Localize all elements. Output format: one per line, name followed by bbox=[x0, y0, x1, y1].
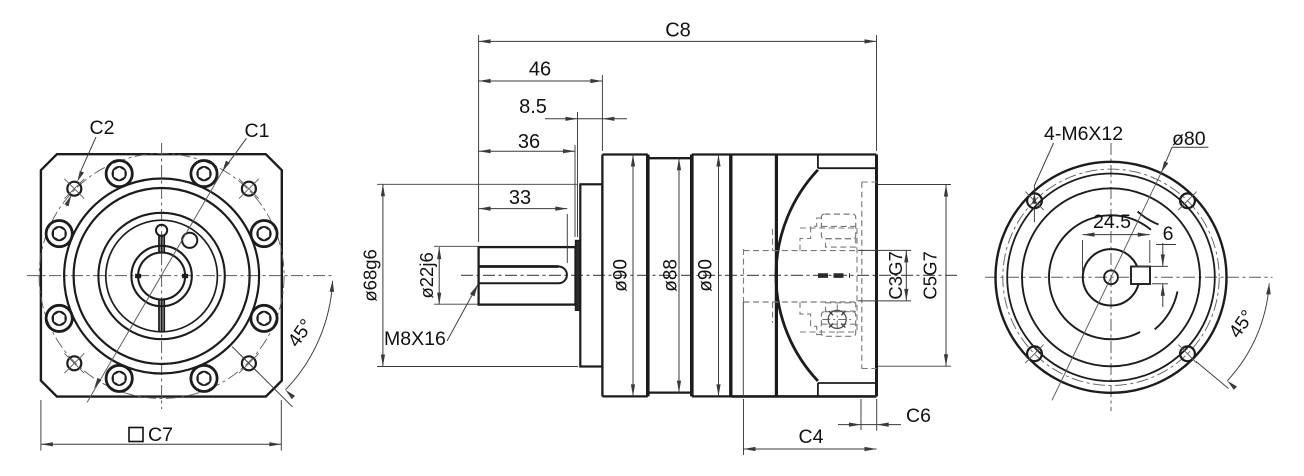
adapter joint line lower bbox=[742, 302, 744, 396]
hidden clamp screw bottom bbox=[821, 312, 855, 337]
left view hex socket screw 1 bbox=[251, 221, 277, 247]
svg-text:C5G7: C5G7 bbox=[920, 251, 941, 299]
hidden coupling bore lines (C3G7) bbox=[744, 250, 858, 252]
shaft shoulder step bbox=[576, 241, 581, 311]
svg-text:C4: C4 bbox=[799, 426, 824, 448]
svg-text:M8X16: M8X16 bbox=[384, 328, 446, 350]
adapter boundary thick bbox=[775, 155, 778, 397]
left view hex socket screw 2 bbox=[191, 161, 217, 187]
label M8X16 leader bbox=[447, 285, 478, 341]
section boundary thick 3 bbox=[729, 155, 732, 397]
dim 24.5 extension lines bbox=[1082, 240, 1084, 272]
right view bolt circle (dash-dot) bbox=[1003, 169, 1219, 385]
left view hex socket screw 3 bbox=[106, 161, 132, 187]
dim 8.5 bbox=[545, 118, 578, 120]
housing front face bbox=[601, 155, 603, 397]
dim C6 extension lines bbox=[860, 399, 862, 430]
dim 46 bbox=[479, 80, 603, 82]
svg-text:ø90: ø90 bbox=[696, 259, 717, 292]
svg-text:36: 36 bbox=[518, 131, 540, 153]
section boundary thick 2 bbox=[690, 155, 694, 397]
left view mounting hole 4 (45 deg) bbox=[242, 356, 256, 370]
svg-text:8.5: 8.5 bbox=[519, 96, 547, 118]
dim 8.5 extension line bbox=[577, 112, 579, 237]
dim C8 extension lines bbox=[478, 35, 480, 242]
left view bolt circle (dash-dot) bbox=[39, 154, 284, 399]
right view hub keyway bbox=[1131, 267, 1150, 285]
dim 36 bbox=[479, 150, 575, 152]
svg-text:C3G7: C3G7 bbox=[885, 251, 906, 299]
label 4-M6X12 leader bbox=[1034, 143, 1053, 186]
dim dia22j6 bbox=[438, 247, 440, 305]
svg-text:4-M6X12: 4-M6X12 bbox=[1044, 123, 1123, 145]
left view diagonal end arrow bbox=[94, 378, 102, 389]
left view hex socket screw 4 bbox=[46, 221, 72, 247]
right view thread arc upper bbox=[1138, 212, 1159, 225]
right view vertical centerline bbox=[1110, 143, 1112, 411]
svg-text:C7: C7 bbox=[148, 424, 173, 446]
left view hex socket screw 5 bbox=[46, 305, 72, 331]
svg-text:ø88: ø88 bbox=[661, 259, 682, 292]
left view clamp slit upper bbox=[158, 236, 160, 253]
svg-text:ø68g6: ø68g6 bbox=[360, 249, 381, 301]
svg-text:ø22j6: ø22j6 bbox=[416, 252, 437, 298]
middle view horizontal centerline bbox=[461, 274, 957, 276]
right view center hole bbox=[1104, 270, 1118, 284]
dim 6 bbox=[1162, 243, 1164, 266]
left view clamp slit lower bbox=[158, 299, 160, 331]
right view 45deg radial line bbox=[1196, 362, 1229, 389]
adapter top line bbox=[732, 153, 877, 155]
dim 33 bbox=[479, 208, 568, 210]
hidden clamp screw top bbox=[821, 214, 855, 239]
left view mounting hole 2 (45 deg) bbox=[67, 182, 81, 196]
left view mounting hole 3 (45 deg) bbox=[67, 356, 81, 370]
dim C8 bbox=[479, 40, 877, 42]
svg-text:6: 6 bbox=[1163, 223, 1174, 245]
right view outer flange circle bbox=[996, 162, 1227, 393]
left view vertical centerline bbox=[161, 143, 163, 409]
dim C5G7 extension lines bbox=[878, 184, 951, 186]
right view input hub circle bbox=[1083, 249, 1139, 305]
left view clamp screw hole top bbox=[156, 225, 167, 236]
dim dia22j6 extension lines bbox=[434, 245, 479, 247]
housing top line section1 bbox=[602, 153, 647, 155]
dimension C7 extension lines bbox=[40, 400, 42, 451]
left view bore keyseat mark left bbox=[135, 274, 141, 278]
left view diagonal centerline 60deg bbox=[87, 171, 222, 402]
hidden step profile top bbox=[800, 218, 821, 251]
left view dowel hole offset bbox=[182, 233, 197, 248]
motor flange step bottom bbox=[817, 383, 819, 396]
dim dia90 first bbox=[632, 155, 634, 397]
left view square flange outline with chamfered corners bbox=[41, 154, 282, 396]
dim C5G7 bbox=[945, 185, 947, 367]
right view 45deg dimension arc bbox=[1227, 283, 1269, 380]
left view bore keyseat mark right bbox=[182, 274, 188, 278]
dim dia90 second bbox=[718, 155, 720, 397]
output shaft outline bbox=[479, 247, 576, 305]
hidden step profile bottom bbox=[800, 302, 821, 335]
hidden bore dashes on centerline bbox=[818, 273, 850, 278]
adapter joint hidden vertical bbox=[743, 249, 745, 302]
left view mounting hole 1 (45 deg) bbox=[242, 182, 256, 196]
right view M6 hole 3 bbox=[1027, 346, 1042, 361]
ring gear section (88) bottom bbox=[648, 391, 692, 393]
left view horizontal centerline bbox=[27, 275, 335, 277]
svg-text:46: 46 bbox=[529, 59, 551, 81]
svg-text:ø80: ø80 bbox=[1172, 128, 1206, 150]
dim C3G7 extension lines bbox=[858, 249, 911, 251]
housing bottom line section3 bbox=[692, 395, 732, 397]
label dia80 leader arrow bbox=[1161, 147, 1172, 172]
left view bearing housing circle bbox=[98, 213, 224, 339]
dim dia88 bbox=[678, 158, 680, 392]
section boundary thick 1 bbox=[646, 155, 650, 397]
dim 24.5 bbox=[1083, 234, 1150, 236]
svg-text:C2: C2 bbox=[90, 117, 115, 139]
dimension C7 line bbox=[41, 443, 281, 445]
left view hex socket screw 8 bbox=[251, 305, 277, 331]
right view inner boss circle bbox=[1022, 188, 1200, 366]
right view M6 hole 4 bbox=[1180, 346, 1195, 361]
left view hex socket screw 6 bbox=[106, 365, 132, 391]
housing top line section3 bbox=[692, 153, 732, 155]
svg-text:24.5: 24.5 bbox=[1093, 211, 1131, 233]
dim C3G7 bbox=[905, 250, 907, 301]
motor flange step top bbox=[817, 155, 819, 169]
left view hex socket screw 7 bbox=[191, 365, 217, 391]
dim C4 bbox=[744, 448, 877, 450]
motor flange rear face bbox=[875, 155, 878, 397]
position target symbol bbox=[828, 310, 846, 328]
right view pilot circle dia80 bbox=[1007, 173, 1215, 381]
label C1 leader and arrow bbox=[222, 138, 246, 171]
housing bottom line section1 bbox=[602, 395, 647, 397]
right view M6 hole 2 bbox=[1027, 193, 1042, 208]
dim 6 extension lines bbox=[1135, 265, 1168, 267]
label C2 leader bbox=[81, 137, 96, 171]
dim C6 bbox=[838, 424, 861, 426]
left view 45deg dimension arc bbox=[285, 281, 332, 390]
dim C4 extension lines bbox=[743, 399, 745, 455]
left view flange boss chamfer circle bbox=[74, 188, 250, 364]
front boss (68g6) outline bbox=[580, 184, 602, 366]
ring gear section (88) top bbox=[648, 157, 692, 159]
svg-text:ø90: ø90 bbox=[611, 259, 632, 292]
adapter bell curve bbox=[776, 170, 818, 381]
dim dia68g6 bbox=[382, 184, 384, 366]
right view thread arc lower bbox=[1155, 291, 1178, 329]
dim dia68g6 extension lines bbox=[377, 183, 578, 185]
left view inner recess circle bbox=[106, 220, 218, 332]
left view flange boss outer circle bbox=[64, 179, 259, 374]
dimension C7 text square symbol bbox=[129, 428, 143, 442]
svg-text:C8: C8 bbox=[665, 20, 691, 42]
adapter bottom line bbox=[732, 395, 877, 398]
right view coupling circle (broken) bbox=[1049, 215, 1151, 339]
left view clamp hub outer circle bbox=[131, 246, 191, 306]
right view M6 hole 1 bbox=[1180, 193, 1195, 208]
right view horizontal centerline bbox=[985, 276, 1273, 278]
label C2 arrows at hole bbox=[77, 171, 84, 182]
shaft keyway slot bbox=[479, 265, 559, 268]
svg-text:C6: C6 bbox=[906, 405, 931, 427]
left view shaft bore circle bbox=[138, 253, 185, 300]
svg-text:C1: C1 bbox=[245, 120, 270, 142]
svg-text:33: 33 bbox=[509, 187, 531, 209]
right view diagonal centerline bbox=[1052, 172, 1161, 400]
left view 45deg extension line bbox=[232, 346, 293, 407]
hidden motor pilot bore (C5G7) bbox=[861, 182, 863, 369]
